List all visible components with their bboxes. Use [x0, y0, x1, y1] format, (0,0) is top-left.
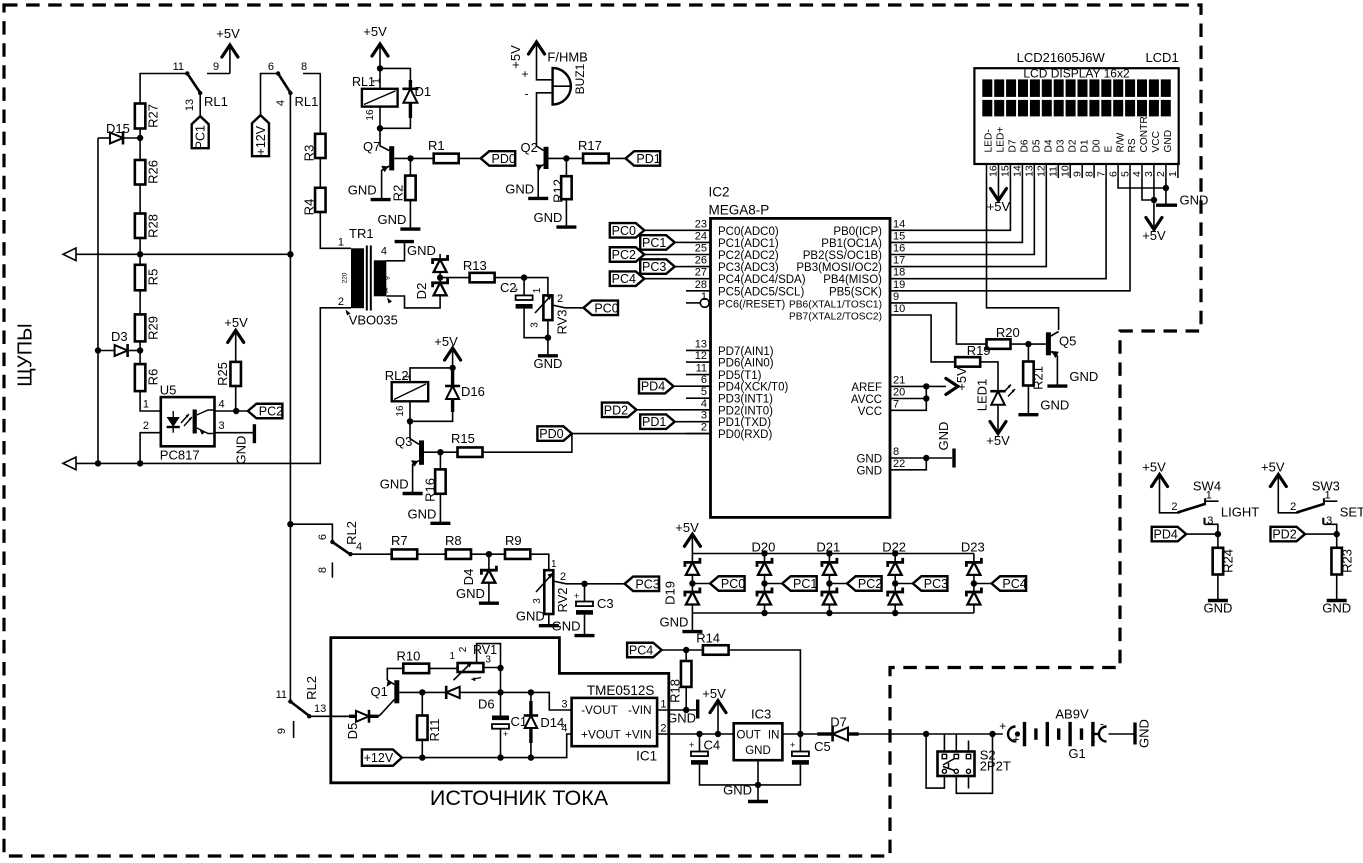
svg-text:LED1: LED1 — [975, 379, 990, 412]
transistor Q3 — [410, 421, 419, 444]
wire D7 to battery plus — [859, 733, 1003, 735]
svg-text:R4: R4 — [302, 199, 317, 216]
potentiometer RV3 — [543, 295, 552, 320]
svg-text:PC4: PC4 — [629, 644, 653, 658]
node PD2/R23 — [1334, 531, 1340, 537]
svg-text:+5V: +5V — [986, 433, 1010, 448]
svg-text:VCC: VCC — [858, 406, 882, 418]
svg-text:25: 25 — [695, 243, 707, 255]
svg-text:VCC: VCC — [1151, 131, 1162, 153]
svg-text:IC1: IC1 — [636, 748, 657, 763]
svg-text:IC3: IC3 — [751, 707, 771, 722]
wire S2 bottom-middle loop — [956, 734, 992, 793]
+5V arrow below LCD pin2 — [1146, 218, 1162, 230]
svg-text:PC1(ADC1): PC1(ADC1) — [718, 238, 779, 250]
+5V arrow at IC3 OUT — [710, 701, 726, 713]
wire S2 top-left pin — [943, 734, 945, 752]
flag PC1 (vertical) — [192, 116, 209, 148]
svg-text:PD1: PD1 — [642, 415, 666, 429]
svg-text:R19: R19 — [967, 343, 991, 358]
wire R9 to RV2 pin1 — [530, 554, 549, 570]
svg-text:1: 1 — [449, 651, 455, 662]
svg-text:PC3: PC3 — [642, 260, 666, 274]
svg-text:PC0(ADC0): PC0(ADC0) — [718, 226, 779, 238]
U5 light arrows — [181, 414, 192, 426]
svg-text:2: 2 — [143, 420, 149, 432]
svg-text:11: 11 — [696, 363, 707, 375]
IC2 MEGA8-P body — [711, 218, 891, 517]
diode D3 — [98, 350, 115, 352]
wire LCD pin5 to pin1 (GND) — [1118, 178, 1166, 188]
flag PC3 at D22 — [895, 583, 913, 585]
svg-text:GND: GND — [1180, 193, 1209, 208]
node probe2/U5 pin2 — [137, 460, 143, 466]
wire D2 to R13 — [440, 277, 470, 279]
IC1 TME0512S body — [572, 698, 658, 746]
svg-text:11: 11 — [276, 689, 287, 701]
wire +12V flag to RL1b pin6 — [261, 74, 279, 116]
ground below RV2 — [539, 624, 559, 627]
svg-text:PB5(SCK): PB5(SCK) — [829, 286, 882, 298]
svg-text:+: + — [574, 591, 579, 601]
flag PD4 to IC2 — [639, 379, 674, 394]
svg-text:D1: D1 — [1079, 139, 1090, 152]
svg-text:GND: GND — [856, 454, 882, 466]
svg-text:PC6(/RESET): PC6(/RESET) — [718, 298, 785, 310]
IC2 pin 6 PD4(XCK/T0) — [686, 385, 711, 387]
svg-text:10: 10 — [1060, 165, 1072, 177]
wire probe2 to TR1 primary pin2 — [76, 308, 351, 464]
resistor R12 — [565, 158, 567, 176]
ground at Q7 emitter — [371, 198, 391, 201]
wire RL1b column to RL2a — [289, 254, 291, 701]
svg-text:1: 1 — [551, 559, 557, 570]
svg-text:PC1: PC1 — [793, 577, 817, 591]
IC2 pin 26 PC3(ADC3) — [686, 266, 711, 268]
svg-text:RL2: RL2 — [304, 676, 319, 700]
resistor R29 — [135, 314, 146, 341]
resistor R24 — [1217, 534, 1219, 548]
svg-text:-VIN: -VIN — [628, 703, 652, 717]
svg-text:28: 28 — [695, 279, 707, 291]
wire GND pins — [890, 457, 952, 459]
node D2 center — [437, 274, 443, 280]
svg-text:D4: D4 — [1044, 139, 1055, 152]
flag +12V — [362, 749, 402, 765]
svg-text:+5V: +5V — [216, 26, 240, 41]
svg-text:8: 8 — [1083, 171, 1095, 177]
svg-text:GND: GND — [407, 243, 436, 258]
wire RL1b pin4 column down — [289, 93, 291, 254]
flag PD1 at R17 — [626, 151, 661, 166]
svg-text:+5V: +5V — [1261, 460, 1285, 475]
svg-text:+5V: +5V — [1142, 228, 1166, 243]
svg-text:PC1: PC1 — [642, 236, 666, 250]
svg-text:RV3: RV3 — [555, 309, 570, 334]
LED LED1 — [990, 390, 1006, 393]
svg-text:PB4(MISO): PB4(MISO) — [823, 274, 882, 286]
battery G1 minus connector — [1095, 733, 1099, 735]
node PD4/R24 — [1215, 531, 1221, 537]
svg-text:D7: D7 — [830, 715, 847, 730]
svg-text:PD1: PD1 — [636, 152, 660, 166]
wire IC1 pin1 to ground — [657, 709, 698, 711]
svg-text:R25: R25 — [215, 362, 230, 386]
wire D15 left branch down — [97, 138, 99, 463]
IC2 pin 1 PC6(/RESET) — [686, 302, 700, 304]
flag PC2 to IC2 — [610, 247, 645, 262]
wire R20 to Q5 base — [1011, 343, 1046, 345]
svg-text:D20: D20 — [752, 540, 776, 555]
node probe1/RL1 pin4 column — [287, 251, 293, 257]
wire TR1 pin3 to D2 bottom — [386, 295, 440, 308]
svg-text:R10: R10 — [397, 649, 421, 664]
svg-text:+5V: +5V — [224, 315, 248, 330]
wire R13 to RV3 pin1 — [495, 278, 548, 296]
flag PD2 to IC2 — [602, 403, 637, 418]
diode D7 — [817, 732, 832, 735]
flag PC1 to IC2 — [640, 235, 675, 250]
svg-text:PC4: PC4 — [1002, 577, 1026, 591]
svg-text:+VIN: +VIN — [625, 728, 652, 742]
svg-text:GND: GND — [1163, 130, 1174, 153]
svg-text:TR1: TR1 — [349, 226, 374, 241]
wire U5 pin4 — [215, 410, 248, 412]
probe input arrow 2 — [63, 457, 76, 470]
svg-text:PC2: PC2 — [259, 405, 283, 419]
S2 spare pin stubs — [968, 741, 970, 752]
svg-text:PD0: PD0 — [492, 152, 516, 166]
svg-text:9: 9 — [1071, 171, 1083, 177]
svg-text:AB9V: AB9V — [1055, 706, 1089, 721]
svg-text:PD0(RXD): PD0(RXD) — [718, 429, 772, 441]
wire R8-R9 — [471, 553, 505, 555]
svg-text:+5V: +5V — [363, 24, 387, 39]
node RV3/C2 bottom — [545, 335, 551, 341]
svg-text:D6: D6 — [1020, 139, 1031, 152]
capacitor C1 — [500, 692, 502, 715]
svg-text:6: 6 — [317, 534, 329, 540]
diode D6 — [446, 687, 460, 698]
transistor Q1 — [394, 680, 399, 703]
node probe2/D15 branch — [95, 460, 101, 466]
svg-text:LED+: LED+ — [996, 127, 1007, 153]
LCD character cells — [982, 79, 992, 97]
svg-text:R18: R18 — [668, 679, 683, 703]
wire R10 to Q1 emitter — [387, 668, 403, 680]
svg-text:D5: D5 — [345, 723, 360, 740]
svg-text:3: 3 — [1143, 171, 1155, 177]
ground at battery — [1133, 723, 1136, 745]
ground below D19 — [691, 613, 693, 632]
svg-text:2: 2 — [660, 723, 666, 735]
transistor Q7 — [380, 128, 389, 150]
wire LCD pin16 to Q5 collector — [987, 178, 1059, 330]
svg-text:RL1: RL1 — [204, 94, 228, 109]
ground at Q2 emitter — [528, 197, 548, 200]
node D14 top — [528, 689, 534, 695]
wire LCD pin6 to IC2 pin18 — [890, 178, 1106, 279]
svg-text:9: 9 — [385, 276, 392, 280]
svg-text:C4: C4 — [704, 738, 721, 753]
wire R3-R4 — [319, 158, 321, 188]
svg-text:9: 9 — [276, 728, 288, 734]
resistor R8 — [446, 549, 471, 559]
svg-text:PD3(INT1): PD3(INT1) — [718, 394, 773, 406]
wire R1 to PD0 flag — [459, 157, 481, 159]
wire R28-probe1 node-R5 — [139, 238, 141, 265]
svg-text:2: 2 — [338, 296, 344, 308]
switch SW3 — [1278, 477, 1299, 513]
svg-text:+12V: +12V — [254, 125, 268, 155]
svg-text:SET: SET — [1340, 504, 1363, 519]
wire LCD pin12 to IC2 pin16 — [890, 178, 1034, 255]
node Q2 base/R12 — [563, 155, 569, 161]
probe input arrow 1 — [63, 248, 76, 261]
wire RV1 node down to base row — [500, 668, 502, 692]
svg-text:15: 15 — [893, 230, 905, 242]
svg-text:R17: R17 — [578, 138, 602, 153]
ground below R21 — [1027, 386, 1029, 415]
svg-text:PC3: PC3 — [635, 577, 659, 591]
switch RL2 contact 6-4 — [290, 524, 332, 541]
diode array top rail — [692, 553, 974, 555]
svg-text:GND: GND — [408, 506, 437, 521]
TR1 polarity marks — [346, 310, 351, 316]
wire Q3 base to R15 — [424, 451, 458, 453]
svg-text:GND: GND — [456, 586, 485, 601]
svg-text:R16: R16 — [423, 478, 438, 502]
svg-text:PD2: PD2 — [604, 403, 628, 417]
svg-text:F/HMB: F/HMB — [547, 50, 587, 65]
svg-text:1: 1 — [660, 699, 666, 711]
ground at IC2 pin8 — [952, 449, 955, 468]
svg-text:2: 2 — [701, 422, 707, 434]
wire LCD pin13 to IC2 pin15 — [890, 178, 1022, 242]
svg-text:PB6(XTAL1/TOSC1): PB6(XTAL1/TOSC1) — [789, 299, 882, 310]
svg-text:PC1: PC1 — [194, 125, 208, 149]
svg-text:8: 8 — [301, 61, 307, 73]
svg-text:C5: C5 — [814, 739, 831, 754]
node probe1/R28-R5 — [137, 251, 143, 257]
svg-text:4: 4 — [1131, 171, 1143, 177]
svg-text:+5V: +5V — [954, 367, 969, 391]
svg-text:-: - — [1092, 734, 1096, 748]
svg-text:GND: GND — [723, 783, 752, 798]
svg-text:PD2: PD2 — [1272, 528, 1296, 542]
svg-text:GND: GND — [1322, 601, 1351, 616]
node D3/chain — [137, 347, 143, 353]
svg-text:1: 1 — [402, 374, 413, 379]
svg-text:PD4: PD4 — [1154, 528, 1178, 542]
svg-text:D22: D22 — [882, 540, 906, 555]
svg-text:C3: C3 — [597, 596, 614, 611]
resistor R14 — [703, 645, 729, 655]
svg-text:17: 17 — [893, 255, 905, 267]
svg-text:1: 1 — [372, 78, 383, 84]
resistor R16 — [439, 452, 441, 469]
node RL2 coil/D16 top — [449, 365, 455, 371]
+5V arrow above RL2 — [445, 348, 461, 360]
node RL1 coil/D1 top — [377, 65, 383, 71]
wire S2 top-middle pin — [955, 734, 957, 752]
wire IC1 pin2 to IC3 OUT — [657, 733, 734, 735]
wire R14 to IC3 IN node — [729, 650, 801, 734]
+5V arrow above RL1 coil — [372, 44, 388, 56]
svg-text:R9: R9 — [505, 533, 522, 548]
diode D5 — [331, 715, 349, 717]
svg-text:-VOUT: -VOUT — [581, 703, 618, 717]
capacitor C5 — [799, 734, 801, 752]
svg-text:D1: D1 — [415, 84, 432, 99]
+5V arrow at SW4 — [1152, 475, 1168, 487]
ground below R24 — [1217, 575, 1219, 601]
svg-text:GND: GND — [660, 615, 689, 630]
node C3 top — [581, 581, 587, 587]
svg-text:R7: R7 — [391, 533, 408, 548]
ground at IC1 pin1 — [696, 700, 699, 719]
svg-text:GND: GND — [380, 477, 409, 492]
svg-text:3: 3 — [1207, 515, 1213, 527]
relay RL1 coil — [379, 68, 381, 88]
resistor R21 — [1027, 344, 1029, 361]
wire LCD pin14 to IC2 pin14 — [890, 178, 1010, 230]
svg-text:+5V: +5V — [434, 334, 458, 349]
svg-text:CONTR: CONTR — [1139, 116, 1150, 152]
IC3 body — [734, 723, 783, 760]
svg-text:PB0(ICP): PB0(ICP) — [833, 226, 882, 238]
node RV1/C1 column — [497, 665, 503, 671]
capacitor C4 — [699, 734, 701, 752]
node R11/+12V rail — [419, 754, 425, 760]
svg-text:D7: D7 — [1008, 139, 1019, 152]
ground below R16 — [439, 494, 441, 524]
resistor R15 — [458, 447, 483, 457]
svg-text:+5V: +5V — [987, 199, 1011, 214]
IC2 pin 27 PC4(ADC4/SDA) — [686, 278, 711, 280]
node IC3 GND/rail — [755, 782, 761, 788]
wire LCD pin4 to IC2 pin19 — [890, 178, 1130, 291]
wire AREF/AVCC/VCC to +5V — [890, 385, 946, 387]
svg-text:+: + — [521, 67, 528, 81]
wire PC4 to R14 — [662, 649, 703, 651]
svg-text:R8: R8 — [445, 533, 462, 548]
svg-text:PB7(XTAL2/TOSC2): PB7(XTAL2/TOSC2) — [789, 312, 882, 323]
svg-text:GND: GND — [1069, 369, 1098, 384]
wire PD2 to R23 — [1305, 533, 1337, 535]
svg-text:ИСТОЧНИК ТОКА: ИСТОЧНИК ТОКА — [430, 786, 609, 810]
node RL1 coil/D1 bottom — [377, 125, 383, 131]
node C1/+12V rail — [497, 754, 503, 760]
svg-text:22: 22 — [893, 458, 905, 470]
svg-text:6: 6 — [268, 61, 274, 73]
svg-text:+: + — [689, 740, 694, 750]
ground below IC3 — [757, 785, 759, 802]
svg-text:D6: D6 — [478, 697, 495, 712]
diode pair D19 — [691, 554, 693, 563]
ground below C3 — [575, 634, 595, 637]
svg-text:PC4(ADC4/SDA): PC4(ADC4/SDA) — [718, 274, 806, 286]
svg-text:11: 11 — [1048, 166, 1060, 177]
wire RV1 pin2 loop — [477, 644, 501, 668]
flag PC3 at RV2 — [625, 577, 660, 592]
resistor R5 — [135, 265, 146, 291]
svg-text:PB3(MOSI/OC2): PB3(MOSI/OC2) — [796, 262, 882, 274]
ground at Q5 emitter — [1047, 384, 1067, 387]
svg-text:PD4: PD4 — [641, 380, 665, 394]
wire R10-RV1 row — [429, 667, 458, 669]
svg-text:GND: GND — [667, 710, 696, 725]
resistor R4 — [315, 188, 326, 212]
resistor R13 — [470, 273, 495, 283]
svg-text:11: 11 — [173, 61, 184, 73]
wire throw8 to R3 — [319, 74, 321, 134]
wire to D1 top — [380, 68, 410, 80]
svg-text:RS: RS — [1127, 138, 1138, 152]
svg-text:4: 4 — [356, 541, 362, 553]
svg-text:IC2: IC2 — [709, 185, 730, 200]
diode D1 — [409, 80, 412, 89]
flag +12V (vertical) — [252, 115, 269, 156]
resistor R18 — [685, 650, 687, 661]
transformer TR1 secondary — [374, 260, 387, 296]
svg-text:27: 27 — [695, 267, 707, 279]
switch SW4 — [1160, 477, 1181, 513]
flag PD2 at SW3 — [1271, 527, 1306, 542]
U5 internal LED — [172, 411, 174, 417]
svg-text:R/W: R/W — [1115, 132, 1126, 152]
svg-text:R29: R29 — [146, 316, 161, 340]
svg-text:GND: GND — [534, 210, 563, 225]
resistor R23 — [1336, 534, 1338, 548]
ground below RV3 — [538, 354, 558, 357]
IC2 pin 12 PD6(AIN0) — [686, 361, 711, 363]
wire PD4 to R24 — [1186, 533, 1218, 535]
wire +12V rail — [402, 734, 572, 758]
svg-text:PC5(ADC5/SCL): PC5(ADC5/SCL) — [718, 286, 804, 298]
wire R7-R8 — [417, 553, 446, 555]
svg-text:R27: R27 — [146, 104, 161, 128]
diode D14 — [530, 692, 532, 701]
resistor R25 — [230, 362, 241, 386]
diode D15 — [98, 137, 110, 139]
svg-text:R23: R23 — [1339, 549, 1354, 573]
wire IC3 GND pin — [757, 760, 759, 785]
node D4 top — [486, 551, 492, 557]
flag PC4 at D23 — [974, 583, 992, 585]
wire S2 bottom-left loop — [926, 734, 944, 788]
resistor R11 — [421, 692, 423, 715]
svg-text:Q5: Q5 — [1059, 334, 1076, 349]
svg-text:PD0: PD0 — [539, 427, 563, 441]
ground at LCD pin1 — [1156, 203, 1177, 206]
flag PC0 at D19 — [692, 583, 710, 585]
capacitor C2 — [523, 278, 525, 296]
svg-text:Q3: Q3 — [395, 434, 412, 449]
wire RV3 pin3 down — [547, 320, 549, 354]
IC2 pin 5 PD3(INT1) — [686, 397, 711, 399]
svg-text:PC2: PC2 — [858, 577, 882, 591]
svg-text:13: 13 — [314, 703, 326, 715]
wire Q7 base to R1 — [394, 157, 434, 159]
wire SW4 throw3 to PD4 node — [1205, 524, 1218, 534]
resistor R3 — [315, 134, 326, 158]
svg-text:1: 1 — [338, 237, 344, 249]
svg-text:-: - — [525, 87, 529, 101]
wire LCD pin15 to +5V — [997, 178, 999, 188]
svg-text:3: 3 — [561, 699, 567, 711]
wire IC2 pin9 to R20 — [890, 303, 987, 344]
